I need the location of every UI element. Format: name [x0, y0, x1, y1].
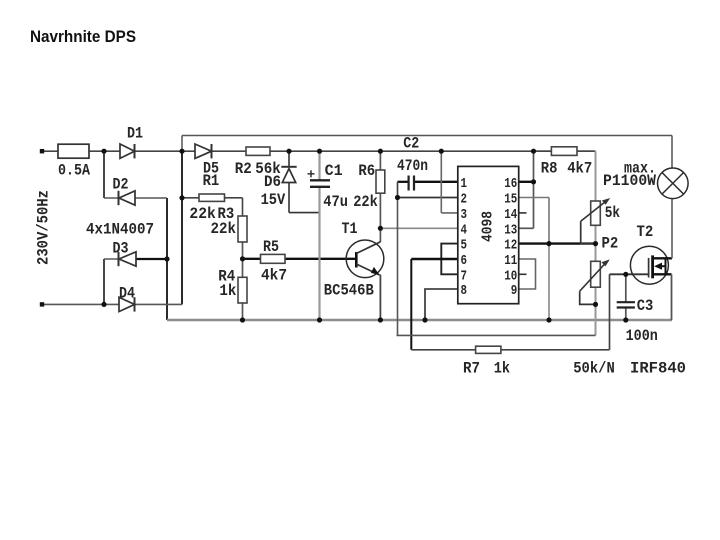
svg-text:13: 13 [504, 223, 517, 238]
svg-text:4: 4 [461, 223, 468, 238]
svg-text:15V: 15V [261, 191, 286, 209]
svg-text:R6: R6 [358, 162, 375, 180]
svg-text:P1100W: P1100W [603, 172, 656, 190]
svg-text:100n: 100n [626, 327, 658, 345]
svg-text:15: 15 [504, 193, 517, 208]
svg-text:22k: 22k [353, 193, 378, 211]
svg-text:22k: 22k [211, 220, 237, 238]
svg-text:C3: C3 [637, 297, 654, 315]
svg-text:6: 6 [461, 254, 468, 269]
svg-text:D3: D3 [113, 240, 129, 258]
svg-text:R8: R8 [541, 160, 558, 178]
svg-text:1k: 1k [219, 282, 236, 300]
svg-text:T2: T2 [637, 223, 654, 241]
svg-text:11: 11 [504, 254, 517, 269]
svg-text:D1: D1 [127, 125, 143, 143]
svg-text:C1: C1 [325, 162, 343, 180]
svg-text:R5: R5 [263, 238, 279, 256]
svg-text:C2: C2 [403, 134, 419, 152]
svg-text:IRF840: IRF840 [630, 359, 686, 377]
svg-text:14: 14 [504, 208, 517, 223]
svg-text:T1: T1 [342, 220, 358, 238]
svg-text:50k/N: 50k/N [573, 359, 615, 377]
svg-text:10: 10 [504, 269, 517, 284]
svg-text:16: 16 [504, 177, 517, 192]
svg-text:R1: R1 [203, 172, 220, 190]
svg-text:P2: P2 [602, 235, 619, 253]
svg-text:4k7: 4k7 [261, 267, 287, 285]
svg-text:9: 9 [511, 284, 518, 299]
svg-text:4k7: 4k7 [567, 160, 592, 178]
svg-text:12: 12 [504, 239, 517, 254]
svg-text:1k: 1k [494, 359, 511, 377]
svg-text:230V/50Hz: 230V/50Hz [35, 190, 53, 265]
svg-text:D2: D2 [113, 176, 129, 194]
svg-text:R7: R7 [463, 359, 480, 377]
svg-text:5: 5 [461, 239, 468, 254]
svg-text:4098: 4098 [480, 211, 497, 242]
svg-text:Navrhnite DPS: Navrhnite DPS [30, 27, 136, 46]
svg-text:D4: D4 [119, 285, 135, 303]
svg-text:4x1N4007: 4x1N4007 [86, 221, 154, 239]
svg-text:8: 8 [461, 284, 468, 299]
svg-text:BC546B: BC546B [324, 282, 374, 300]
svg-text:7: 7 [461, 269, 468, 284]
svg-text:2: 2 [461, 193, 468, 208]
svg-text:1: 1 [461, 177, 468, 192]
svg-text:0.5A: 0.5A [58, 162, 90, 180]
svg-text:R2: R2 [235, 160, 252, 178]
svg-text:5k: 5k [605, 204, 621, 222]
svg-text:3: 3 [461, 208, 468, 223]
svg-text:D6: D6 [264, 173, 281, 191]
svg-text:470n: 470n [397, 157, 428, 175]
svg-text:47u: 47u [323, 193, 348, 211]
